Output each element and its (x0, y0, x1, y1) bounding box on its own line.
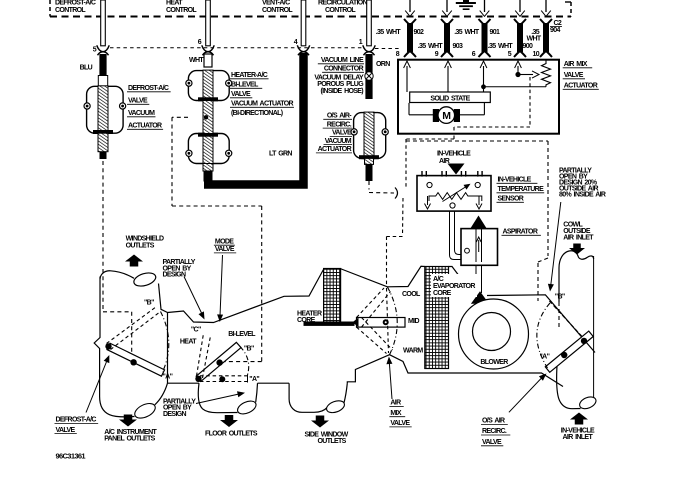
mode door C position dashed (197, 334, 204, 377)
svg-text:VALVE: VALVE (564, 72, 584, 79)
svg-text:POROUS PLUG: POROUS PLUG (317, 81, 364, 88)
cowl inlet arrow (569, 244, 585, 255)
svg-text:AIR MIX: AIR MIX (564, 61, 588, 68)
label FLOOR OUTLETS with arrow (220, 415, 238, 427)
LT GRN thick hose run (204, 53, 304, 185)
heater core base bar (304, 322, 355, 326)
svg-text:VALVE: VALVE (231, 91, 251, 98)
potentiometer bottom wire to 901 (484, 86, 547, 88)
svg-text:AIR: AIR (390, 400, 401, 407)
hose 1 to recirc actuator (367, 0, 372, 46)
svg-text:TEMPERATURE: TEMPERATURE (498, 186, 545, 193)
aspirator tube (475, 229, 477, 262)
svg-text:FLOOR OUTLETS: FLOOR OUTLETS (205, 430, 258, 437)
defrost-a/c valve vacuum actuator (98, 76, 107, 87)
svg-text:BI-LEVEL: BI-LEVEL (228, 331, 256, 338)
svg-text:.35 WHT: .35 WHT (418, 43, 444, 50)
svg-text:96C31361: 96C31361 (56, 452, 86, 461)
in-vehicle air region dashed boundary (406, 141, 548, 301)
o/s air-recirc valve vacuum actuator (354, 113, 386, 159)
svg-text:VALVE: VALVE (56, 427, 76, 434)
svg-text:RECIRC.: RECIRC. (327, 121, 352, 128)
plenum case top profile (168, 266, 596, 352)
label IN-VEHICLE AIR INLET with arrow (570, 413, 588, 425)
svg-text:903: 903 (453, 43, 463, 50)
WHT hose sleeve (204, 54, 212, 67)
svg-text:VACUUM LINE: VACUUM LINE (321, 57, 364, 64)
air mix linkage dashed below box (387, 136, 455, 287)
svg-text:CORE: CORE (433, 290, 452, 297)
mode door pivot dots (195, 376, 201, 382)
recirc door swing arc (537, 303, 550, 368)
bi-level door linkage dashed (172, 117, 262, 361)
hose 5 to defrost actuator (101, 0, 106, 46)
svg-text:IN-VEHICLE: IN-VEHICLE (437, 151, 471, 158)
svg-text:WHT: WHT (189, 57, 204, 64)
svg-text:CONTROL: CONTROL (325, 7, 356, 14)
svg-text:BI-LEVEL: BI-LEVEL (231, 82, 259, 89)
sensor top grille plates (421, 171, 423, 177)
svg-text:EVAPORATOR: EVAPORATOR (433, 283, 475, 290)
svg-text:"C": "C" (191, 327, 201, 334)
cowl duct outline (559, 251, 594, 302)
aspirator internal arrow (478, 240, 480, 252)
svg-text:WARM: WARM (403, 348, 423, 355)
ground symbol (456, 2, 476, 4)
a/c evaporator core (425, 267, 449, 369)
in-vehicle air flow triangle (448, 164, 465, 175)
svg-text:DEFROST-A/C: DEFROST-A/C (56, 417, 97, 424)
aspirator screw (465, 248, 470, 253)
floor outlets duct bell (198, 383, 237, 413)
svg-text:VALVE: VALVE (482, 439, 502, 446)
defrost actuator rod (98, 133, 108, 152)
hose 4 vent (301, 0, 306, 46)
svg-text:"B": "B" (144, 300, 154, 307)
wire 904 (540, 19, 552, 25)
svg-text:"B": "B" (244, 345, 254, 352)
air mix door WARM position dashed (357, 327, 387, 353)
svg-text:DEFROST-A/C: DEFROST-A/C (128, 85, 169, 92)
svg-text:PANEL OUTLETS: PANEL OUTLETS (104, 436, 155, 443)
svg-text:DESIGN: DESIGN (163, 411, 187, 418)
svg-text:901: 901 (490, 29, 500, 36)
recirc door pivot dots (581, 338, 587, 344)
sensor thermistor zigzag (429, 193, 482, 201)
wire 903 (441, 19, 453, 25)
svg-text:IN-VEHICLE: IN-VEHICLE (498, 177, 532, 184)
svg-text:AIR INLET: AIR INLET (563, 434, 594, 441)
svg-text:COOL: COOL (402, 291, 421, 298)
bi-level actuator rod (203, 101, 213, 134)
svg-text:VACUUM ACTUATOR: VACUUM ACTUATOR (231, 101, 294, 108)
svg-text:MODE: MODE (215, 238, 234, 245)
svg-text:VALVE: VALVE (390, 420, 410, 427)
svg-text:10: 10 (533, 51, 540, 58)
svg-text:VACUUM: VACUUM (128, 110, 155, 117)
harness arrows into control head (409, 0, 411, 12)
svg-text:HEATER-A/C: HEATER-A/C (231, 72, 268, 79)
svg-text:DEFROST-A/C: DEFROST-A/C (55, 0, 96, 7)
heater core (324, 269, 341, 323)
label SIDE WINDOW OUTLETS with arrow (311, 416, 329, 428)
panel outlets duct bell (100, 385, 135, 417)
svg-text:"B": "B" (555, 294, 565, 301)
svg-text:CONTROL: CONTROL (166, 7, 197, 14)
svg-text:O/S AIR: O/S AIR (482, 418, 505, 425)
svg-text:M: M (442, 110, 451, 122)
svg-text:ACTUATOR: ACTUATOR (564, 83, 598, 90)
o/s air recirc valve door (545, 331, 593, 372)
svg-text:ORN: ORN (376, 61, 390, 68)
heater-a/c bi-level valve vacuum actuator upper chamber (188, 71, 229, 101)
svg-text:AIR INLET: AIR INLET (563, 235, 594, 242)
svg-text:VALVE: VALVE (215, 246, 235, 253)
heater-a/c bi-level valve vacuum actuator lower chamber (188, 134, 229, 164)
air mix valve actuator box (398, 60, 559, 134)
wire 900 (514, 19, 526, 25)
sensor to aspirator duct (450, 211, 462, 259)
recirc actuator linkage dashed (369, 181, 394, 193)
bi-level actuator rod bottom cap (204, 171, 213, 182)
in-vehicle temperature sensor box (417, 176, 491, 212)
air mix linkage through door dashed (387, 288, 389, 353)
potentiometer wiper arrow (518, 74, 533, 76)
connector chevron hose 5 (97, 45, 109, 55)
connector chevron hose 4 (297, 45, 309, 55)
label A/C EVAPORATOR CORE (431, 274, 477, 297)
blower housing circle (459, 299, 529, 369)
svg-text:MIX: MIX (390, 410, 401, 417)
actuator box internal wires with arrows (406, 66, 408, 92)
svg-text:VALVE: VALVE (332, 130, 352, 137)
linkage connector chevron (395, 188, 398, 199)
in-vehicle air inlet duct (557, 358, 581, 409)
svg-text:BLOWER: BLOWER (480, 359, 508, 366)
svg-text:C2: C2 (554, 20, 562, 27)
air mix door COOL position dashed (357, 288, 385, 318)
defrost door pivot dots (105, 343, 111, 349)
svg-text:902: 902 (414, 29, 424, 36)
windshield outlets duct (100, 271, 134, 279)
defrost door swing arc (161, 312, 169, 373)
mode door swing arc (240, 347, 249, 376)
svg-text:.35 WHT: .35 WHT (488, 43, 514, 50)
svg-text:904: 904 (550, 27, 560, 34)
svg-text:(INSIDE HOSE): (INSIDE HOSE) (320, 88, 363, 95)
svg-text:SENSOR: SENSOR (498, 196, 524, 203)
sensor screws (427, 182, 432, 187)
svg-text:HEAT: HEAT (166, 0, 183, 7)
mode door A position dot (219, 376, 225, 382)
svg-text:DESIGN: DESIGN (163, 272, 187, 279)
svg-text:VENT-A/C: VENT-A/C (262, 0, 290, 7)
solid state module (410, 92, 491, 103)
svg-text:A/C: A/C (433, 276, 444, 283)
air mix door pivot (383, 319, 389, 325)
svg-text:VACUUM: VACUUM (325, 138, 352, 145)
svg-text:MID: MID (408, 318, 419, 325)
svg-text:CONTROL: CONTROL (55, 7, 86, 14)
svg-text:(BI-DIRECTIONAL): (BI-DIRECTIONAL) (231, 110, 283, 117)
ORN hose sleeve (365, 54, 372, 99)
svg-text:ACTUATOR: ACTUATOR (318, 146, 352, 153)
svg-text:80% INSIDE AIR: 80% INSIDE AIR (559, 192, 606, 199)
svg-text:RECIRC.: RECIRC. (482, 428, 507, 435)
label A/C INSTRUMENT PANEL OUTLETS with arrow (119, 415, 137, 427)
vacuum delay porous plug symbol (365, 72, 373, 80)
svg-text:ACTUATOR: ACTUATOR (128, 123, 162, 130)
motor M (408, 103, 410, 115)
svg-text:900: 900 (523, 43, 533, 50)
air mix feedback potentiometer (542, 60, 551, 87)
svg-text:VALVE: VALVE (128, 98, 148, 105)
recirc door B position dashed (550, 301, 582, 336)
plenum case bottom profile (168, 313, 564, 387)
recirc actuator rod tip (365, 158, 374, 164)
air mix door swing arc (387, 287, 397, 355)
svg-text:CONNECTOR: CONNECTOR (324, 66, 364, 73)
hose 6 to bi-level actuator (206, 0, 211, 46)
mode valve door (bi-level position) (196, 342, 241, 381)
svg-text:"A": "A" (540, 354, 550, 361)
sensor outlet arrows (427, 196, 429, 205)
wire 901 (479, 19, 491, 25)
svg-text:CORE: CORE (297, 317, 316, 324)
air mix linkage dashed inside box (454, 77, 530, 134)
connector chevron hose 6 (202, 45, 214, 55)
blower to aspirator triangle (471, 291, 489, 303)
wire 902 (404, 19, 416, 25)
svg-text:CONTROL: CONTROL (262, 7, 293, 14)
svg-text:SOLID STATE: SOLID STATE (430, 95, 470, 102)
control head dashed box (49, 0, 51, 17)
blower hub circle (473, 313, 511, 351)
svg-text:.35 WHT: .35 WHT (376, 29, 402, 36)
svg-text:LT GRN: LT GRN (269, 151, 292, 158)
aspirator inlet triangle (471, 216, 487, 229)
svg-text:"A": "A" (249, 376, 259, 383)
svg-text:OUTLETS: OUTLETS (318, 438, 347, 445)
note arrow to recirc door B position (551, 202, 561, 285)
aspirator box (461, 229, 498, 266)
thermistor adjust arrow (443, 186, 468, 202)
BLU hose sleeve (99, 54, 106, 76)
svg-text:ASPIRATOR: ASPIRATOR (503, 229, 538, 236)
svg-text:BLU: BLU (80, 65, 93, 72)
svg-text:OUTLETS: OUTLETS (126, 242, 155, 249)
svg-text:"A": "A" (163, 374, 173, 381)
svg-text:RECIRCULATION: RECIRCULATION (318, 0, 368, 7)
svg-text:.35 WHT: .35 WHT (454, 29, 480, 36)
mode door A position dashed (200, 375, 247, 377)
side window outlets duct (289, 383, 327, 412)
svg-text:HEAT: HEAT (180, 339, 197, 346)
bi-level rod center pin (204, 115, 208, 119)
svg-text:O/S AIR-: O/S AIR- (327, 113, 352, 120)
defrost-a/c valve door (107, 343, 165, 376)
svg-text:WHT: WHT (527, 36, 542, 43)
connector chevron hose 1 (363, 45, 375, 55)
air mix valve door (357, 318, 406, 328)
defrost door linkage dashed (103, 161, 132, 359)
vacuum hose chevron-level dashed line (110, 47, 362, 49)
defrost door B position dashed (107, 307, 157, 344)
defrost actuator rod tip (100, 152, 107, 160)
